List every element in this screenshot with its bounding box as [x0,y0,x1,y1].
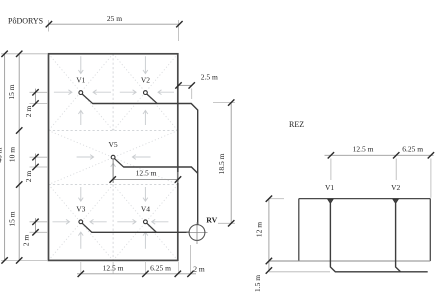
svg-text:V4: V4 [141,205,150,214]
dim 18.5 m right [213,99,235,226]
section wire extension [269,271,330,273]
section floor [269,260,430,262]
wire row2 [124,167,198,173]
lamp V5 [109,140,124,167]
dim 12 m section left [255,196,285,271]
svg-text:1.5 m: 1.5 m [253,275,262,292]
svg-text:RV: RV [206,216,217,225]
arrows V1 [78,56,83,73]
lamp V4 [141,205,157,233]
section lamp V1 [325,183,334,204]
svg-text:REZ: REZ [289,120,304,129]
section left wall [298,199,300,261]
wire row1 [93,104,198,225]
dim 2.5 m top right [175,72,218,99]
dim 12.5/6.25 section top [325,145,435,198]
section right wall [429,199,431,261]
svg-text:15 m: 15 m [7,84,16,99]
dim 40 m left outer [0,51,48,264]
arrows V3 [78,187,83,201]
svg-text:V1: V1 [325,183,334,192]
svg-text:V3: V3 [76,205,85,214]
svg-text:40 m: 40 m [0,147,4,162]
arrows V2 [143,56,148,73]
wire row3 [92,231,190,233]
room outline [49,54,178,261]
svg-text:2 m: 2 m [22,235,31,247]
svg-text:V2: V2 [141,75,150,84]
section wire V1 drop [330,203,427,272]
section wire V2 drop [396,203,401,272]
dim 12.5 m V5 [110,160,182,183]
svg-text:12.5 m: 12.5 m [353,145,374,154]
arrows V4 [143,187,148,201]
svg-text:V5: V5 [109,140,118,149]
section lamp V2 [391,183,400,204]
svg-text:12.5 m: 12.5 m [136,169,157,178]
section ceiling [299,198,431,200]
svg-text:15 m: 15 m [8,211,17,226]
distribution box RV [187,216,218,244]
lamp V1 [76,75,93,103]
svg-text:18.5 m: 18.5 m [217,153,226,174]
dim chain bottom 12.5/6.25/2 [77,245,205,277]
svg-text:12.5 m: 12.5 m [103,263,124,272]
dim 25 m top [46,14,183,41]
svg-text:V2: V2 [391,183,400,192]
svg-text:6.25 m: 6.25 m [402,145,423,154]
svg-text:10 m: 10 m [8,147,17,162]
arrows V5 [111,163,116,176]
svg-text:2 m: 2 m [24,106,33,118]
svg-text:PôDORYS: PôDORYS [8,17,43,26]
zone diagonals [49,54,178,261]
svg-text:2.5 m: 2.5 m [201,72,218,81]
svg-text:12 m: 12 m [255,222,264,237]
dim 2 m row2 [24,154,48,183]
svg-text:25 m: 25 m [107,14,122,23]
zone boundary dashed grid [49,54,178,261]
dim 1.5 m section left [253,267,272,292]
svg-text:V1: V1 [76,75,85,84]
lamp V3 [76,205,92,233]
dim 2 m row1 [24,89,48,118]
svg-text:2 m: 2 m [193,264,205,273]
svg-text:6.25 m: 6.25 m [150,263,171,272]
dim chain 15/10/15 left inner [7,51,23,264]
dim 2 m row3 [22,218,49,246]
svg-text:2 m: 2 m [24,171,33,183]
lamp V2 [141,75,158,103]
flux arrows [53,56,175,249]
